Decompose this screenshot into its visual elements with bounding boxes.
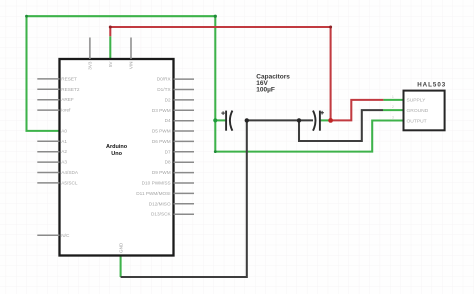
svg-text:A3: A3 bbox=[61, 160, 67, 165]
pin D7 bbox=[174, 151, 195, 153]
wire green HAL SUPPLY pin stub bbox=[383, 99, 403, 101]
pin VIN bbox=[130, 38, 132, 60]
Arduino top pin labels rotated bbox=[88, 61, 134, 70]
HAL503 pin labels bbox=[407, 98, 429, 125]
pin A1 bbox=[37, 140, 59, 142]
svg-text:GND: GND bbox=[118, 242, 123, 253]
capacitors value label bbox=[256, 73, 290, 93]
wire green cap2 right lead bbox=[320, 119, 331, 121]
svg-text:5V: 5V bbox=[108, 61, 113, 68]
wire red net 5V to cap2 to HAL SUPPLY bbox=[110, 27, 383, 120]
pin D12/MISO bbox=[174, 203, 195, 205]
svg-text:D8: D8 bbox=[165, 160, 171, 165]
bend dot green top-right bbox=[214, 15, 217, 18]
svg-text:D1/TX: D1/TX bbox=[157, 87, 171, 92]
svg-text:D0/RX: D0/RX bbox=[157, 77, 172, 82]
pin A2 bbox=[37, 151, 59, 153]
svg-text:D5 PWM: D5 PWM bbox=[152, 129, 171, 134]
svg-text:Arduino: Arduino bbox=[106, 144, 128, 150]
svg-text:A4/SDA: A4/SDA bbox=[61, 170, 79, 175]
svg-text:1: 1 bbox=[392, 95, 394, 99]
junction dot black cap2 left bbox=[297, 118, 301, 122]
svg-text:A0: A0 bbox=[61, 128, 67, 133]
svg-text:D11 PWM/MOSI: D11 PWM/MOSI bbox=[136, 191, 170, 196]
svg-text:D12/MISO: D12/MISO bbox=[149, 201, 171, 206]
svg-text:D4: D4 bbox=[165, 118, 171, 123]
wire green cap1 left lead bbox=[215, 119, 226, 121]
junction dot black cap1 right bbox=[245, 118, 249, 122]
svg-text:A5/SCL: A5/SCL bbox=[61, 180, 78, 185]
Arduino right pins bbox=[174, 79, 195, 214]
bend dot green top-left bbox=[25, 15, 28, 18]
pin D2 bbox=[174, 99, 195, 101]
Arduino pin labels right bbox=[136, 77, 171, 217]
pin D9 PWM bbox=[174, 172, 195, 174]
HAL503 pin numbers bbox=[392, 95, 394, 120]
wire gray GND to cap junction bbox=[121, 120, 247, 277]
svg-text:RESET2: RESET2 bbox=[61, 87, 80, 92]
wire green HAL GROUND pin stub bbox=[383, 109, 404, 111]
svg-text:Uno: Uno bbox=[111, 151, 122, 157]
pin N/C bbox=[37, 234, 59, 236]
Arduino top pins bbox=[90, 38, 131, 60]
svg-text:HAL503: HAL503 bbox=[417, 81, 446, 88]
pin 3V3 bbox=[89, 38, 91, 60]
svg-text:D7: D7 bbox=[165, 149, 171, 154]
Arduino Uno body bbox=[60, 59, 174, 256]
pin D8 bbox=[174, 161, 195, 163]
pin D13/SCK bbox=[174, 213, 195, 215]
svg-text:D9 PWM: D9 PWM bbox=[152, 170, 171, 175]
svg-text:D13/SCK: D13/SCK bbox=[151, 212, 171, 217]
junction dot red cap2 right bbox=[328, 118, 333, 123]
pin D4 bbox=[174, 120, 195, 122]
Arduino pin labels left bbox=[61, 76, 80, 237]
pin D6 PWM bbox=[174, 140, 195, 142]
bend dot red top-left bbox=[109, 26, 112, 29]
pin RESET2 bbox=[37, 88, 59, 90]
svg-text:VIN: VIN bbox=[129, 62, 134, 70]
wire green net A0 to cap1 to HAL OUTPUT bbox=[27, 16, 404, 277]
pin A3 bbox=[37, 161, 59, 163]
wire green 5V pin stub bbox=[109, 36, 111, 59]
capacitor C2 plus sign bbox=[320, 111, 324, 115]
svg-text:A2: A2 bbox=[61, 149, 67, 154]
svg-text:D3 PWM: D3 PWM bbox=[152, 108, 171, 113]
svg-text:2: 2 bbox=[392, 105, 394, 109]
pin D0/RX bbox=[174, 78, 195, 80]
wire green A0 left segment bbox=[27, 16, 404, 151]
HAL503 body bbox=[404, 91, 445, 131]
pin D5 PWM bbox=[174, 130, 195, 132]
wire green GND pin stub bbox=[120, 256, 122, 278]
pin D11 PWM/MOSI bbox=[174, 192, 195, 194]
svg-text:GROUND: GROUND bbox=[407, 108, 429, 114]
capacitor C2 bbox=[313, 111, 320, 131]
svg-text:OUTPUT: OUTPUT bbox=[407, 118, 427, 124]
pin RESET bbox=[37, 78, 59, 80]
wire gray branch to HAL GROUND bbox=[299, 110, 383, 141]
pin AREF bbox=[37, 99, 59, 101]
wire ground gray net bbox=[121, 110, 383, 277]
svg-text:ioref: ioref bbox=[61, 108, 71, 113]
pin D3 PWM bbox=[174, 109, 195, 111]
svg-text:AREF: AREF bbox=[61, 97, 74, 102]
svg-text:D6 PWM: D6 PWM bbox=[152, 139, 171, 144]
svg-text:D2: D2 bbox=[165, 97, 171, 102]
capacitor C1 plus sign bbox=[221, 111, 225, 115]
Arduino title bbox=[106, 144, 128, 157]
pin ioref bbox=[37, 109, 59, 111]
capacitor C1 bbox=[226, 111, 232, 131]
svg-text:3V3: 3V3 bbox=[88, 61, 93, 70]
svg-text:3: 3 bbox=[392, 116, 394, 120]
pin D1/TX bbox=[174, 89, 195, 91]
pin D10 PWM/SS bbox=[174, 182, 195, 184]
bend dot red top-right bbox=[329, 26, 332, 29]
junction dot green at cap1 bbox=[213, 118, 217, 122]
svg-text:A1: A1 bbox=[61, 139, 67, 144]
svg-text:D10 PWM/SS: D10 PWM/SS bbox=[142, 181, 171, 186]
Arduino left pins bbox=[37, 79, 59, 235]
pin A4/SDA bbox=[37, 172, 59, 174]
svg-text:SUPPLY: SUPPLY bbox=[407, 98, 427, 104]
pin A5/SCL bbox=[37, 182, 59, 184]
bend dot green bottom bbox=[214, 150, 217, 153]
wire gray cap1 right lead to cap2 left lead bbox=[247, 119, 313, 121]
svg-text:100µF: 100µF bbox=[256, 87, 275, 94]
svg-text:N/C: N/C bbox=[61, 233, 70, 238]
svg-text:RESET: RESET bbox=[61, 76, 77, 81]
